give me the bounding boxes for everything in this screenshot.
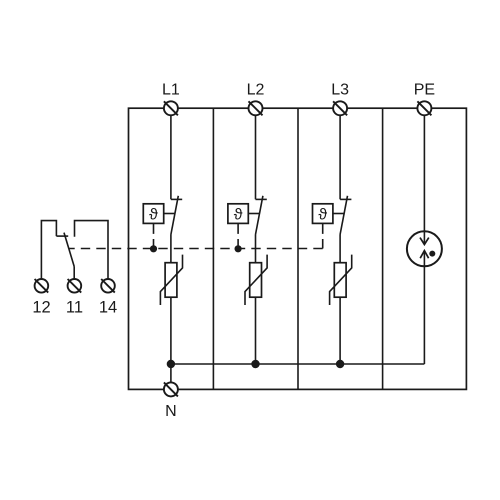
svg-text:11: 11 [66,298,83,316]
junction dot bus L3 [336,360,344,368]
junction dot trip L2 [235,245,242,252]
svg-text:PE: PE [414,82,435,99]
switch F1 arm [171,196,178,235]
svg-text:12: 12 [32,298,50,316]
link wire T1 to switch [164,213,175,215]
link wire T2 to switch [248,213,259,215]
svg-text:L3: L3 [331,82,349,99]
divider line 1 [212,108,214,389]
wire L1 lower [170,297,172,382]
slash terminal 12 [35,279,49,293]
terminal N [164,382,178,396]
thermal disconnect box T2 [228,204,248,224]
varistor RV3 diagonal [330,255,352,305]
wire contact 14 bracket [75,221,109,280]
svg-text:ϑ: ϑ [234,207,243,224]
varistor RV3 body [334,263,346,298]
spark gap F4 up arrowhead [420,251,428,259]
dashed link T3 [322,223,324,248]
terminal 12 [35,279,49,293]
wire L1 mid [170,235,172,263]
bus wire N [171,363,425,365]
wire L3 lower [339,297,341,364]
svg-text:N: N [165,403,177,420]
slash terminal PE [417,101,431,115]
switch F2 fixed contact stub [256,198,267,200]
switch F2 arm [256,196,263,235]
varistor RV1 diagonal [160,255,182,305]
divider line 3 [382,108,384,389]
wire PE lower [423,251,425,364]
junction dot bus L2 [251,360,259,368]
slash terminal N [164,382,178,396]
wire L3 mid [339,235,341,263]
junction dot bus L1 [167,360,175,368]
wire L2 lower [255,297,257,364]
switch F3 arm [340,196,347,235]
svg-text:14: 14 [99,298,117,316]
varistor RV2 body [250,263,262,298]
slash terminal 14 [101,279,115,293]
svg-text:ϑ: ϑ [149,207,158,224]
thermal disconnect box T3 [313,204,333,224]
varistor RV1 body [165,263,177,298]
svg-text:ϑ: ϑ [318,207,327,224]
divider line 2 [297,108,299,389]
svg-text:L2: L2 [247,82,265,99]
spark gap F4 circle [407,231,442,266]
terminal 14 [101,279,115,293]
spark gap indicator dot [429,251,435,257]
changeover contact arm [64,233,74,267]
dashed link T1 [153,223,155,248]
slash terminal L2 [249,101,263,115]
wire L3 branch upper [339,108,341,199]
terminal 11 [68,279,82,293]
dashed trip line [69,248,323,250]
slash terminal L1 [164,101,178,115]
wire PE branch upper [423,108,425,244]
contact 12 seat [56,235,68,237]
wire L2 branch upper [255,108,257,199]
wire contact 12 bracket [41,221,56,280]
terminal L2 [249,101,263,115]
terminal L3 [333,101,347,115]
enclosure box [129,108,467,389]
thermal disconnect box T1 [143,204,163,224]
switch F3 fixed contact stub [340,198,351,200]
svg-text:L1: L1 [162,82,180,99]
spark gap F4 down arrowhead [420,238,429,245]
terminal L1 [164,101,178,115]
terminal PE [417,101,431,115]
junction dot trip L1 [150,245,157,252]
slash terminal L3 [333,101,347,115]
slash terminal 11 [68,279,82,293]
wire contact 11 lead [73,267,75,280]
wire L2 mid [255,235,257,263]
switch F1 fixed contact stub [171,198,182,200]
varistor RV2 diagonal [245,255,267,305]
dashed link T2 [237,223,239,248]
wire L1 branch upper [170,108,172,199]
link wire T3 to switch [333,213,344,215]
